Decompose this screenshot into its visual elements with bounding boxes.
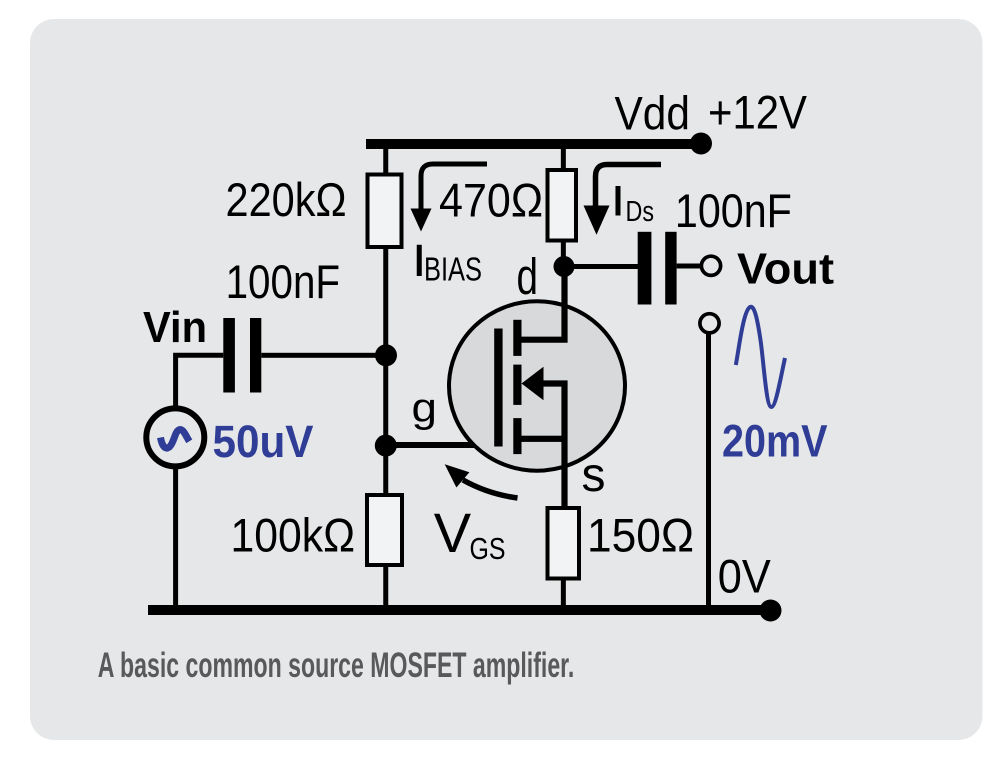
- wire node A to gate node: [383, 355, 388, 446]
- resistor R3 100k body: [367, 495, 402, 565]
- wire gate node to R3: [383, 445, 388, 495]
- svg-text:Vin: Vin: [143, 303, 207, 352]
- arrow IDs: [596, 165, 662, 208]
- svg-text:GS: GS: [470, 531, 506, 566]
- arrow VGS: [463, 480, 518, 498]
- bottom rail: [148, 605, 764, 615]
- capacitor C2 100nF plate 1: [638, 232, 652, 305]
- wire Vin elbow to C1: [176, 355, 224, 409]
- svg-text:100nF: 100nF: [675, 184, 792, 237]
- svg-text:d: d: [517, 248, 539, 305]
- svg-text:I: I: [611, 178, 626, 226]
- Vdd rail terminal dot: [690, 133, 712, 155]
- MOSFET source connection: [541, 384, 565, 510]
- output sine glyph: [736, 307, 785, 407]
- wire rail to R2: [561, 144, 566, 172]
- Vout probe open circle: [700, 314, 719, 333]
- wire Vout probe to bottom rail: [706, 333, 711, 610]
- source V1 sine glyph: [161, 430, 190, 449]
- svg-text:0V: 0V: [718, 550, 772, 603]
- Vout terminal open circle: [701, 256, 720, 275]
- MOSFET drain connection: [522, 267, 565, 340]
- wire drain node to C2: [564, 264, 639, 269]
- wire rail to R1: [383, 144, 388, 175]
- MOSFET gate bar: [494, 329, 502, 447]
- svg-text:s: s: [582, 449, 606, 502]
- wire C1 to node A: [261, 353, 386, 358]
- wire R4 to bottom rail: [561, 577, 566, 610]
- svg-text:100kΩ: 100kΩ: [231, 509, 356, 562]
- MOSFET channel segment middle: [513, 365, 521, 405]
- MOSFET bottom channel link: [522, 436, 565, 442]
- wire R3 to bottom rail: [383, 564, 388, 610]
- svg-text:20mV: 20mV: [722, 415, 828, 466]
- svg-text:150Ω: 150Ω: [587, 509, 694, 562]
- Vdd rail: [366, 139, 696, 149]
- MOSFET body arrow: [522, 367, 544, 400]
- resistor R2 470 body: [548, 170, 577, 241]
- wire C2 to Vout terminal: [677, 264, 702, 269]
- drain node dot: [554, 256, 575, 277]
- wire R2 to drain node: [561, 240, 566, 268]
- MOSFET channel segment top: [513, 320, 521, 356]
- svg-text:Vdd: Vdd: [615, 87, 691, 140]
- svg-text:+12V: +12V: [708, 86, 808, 139]
- svg-text:A basic common source MOSFET a: A basic common source MOSFET amplifier.: [98, 645, 575, 685]
- gate node dot: [375, 435, 397, 457]
- resistor R1 220k body: [368, 175, 402, 248]
- MOSFET Q1 body circle: [449, 301, 625, 470]
- arrow IBIAS: [421, 164, 487, 210]
- resistor R4 150 body: [548, 508, 580, 579]
- svg-text:V: V: [434, 501, 472, 564]
- wire gate node to MOSFET gate: [386, 442, 500, 448]
- MOSFET channel segment bottom: [513, 418, 521, 454]
- svg-text:BIAS: BIAS: [424, 250, 482, 287]
- bottom rail terminal dot: [760, 600, 782, 622]
- capacitor C2 100nF plate 2: [665, 232, 676, 305]
- svg-text:100nF: 100nF: [226, 255, 341, 308]
- wire R1 to node A: [383, 246, 388, 356]
- wire V1 to bottom rail: [173, 466, 178, 611]
- capacitor C1 100nF plate 2: [250, 318, 261, 393]
- svg-text:470Ω: 470Ω: [439, 173, 543, 226]
- svg-text:50uV: 50uV: [213, 416, 314, 467]
- svg-text:220kΩ: 220kΩ: [226, 173, 347, 226]
- capacitor C1 100nF plate 1: [223, 318, 235, 393]
- svg-text:Ds: Ds: [626, 196, 655, 228]
- source V1 circle: [146, 408, 204, 466]
- svg-text:g: g: [412, 385, 438, 431]
- svg-text:Vout: Vout: [737, 245, 834, 294]
- node A dot: [375, 344, 397, 366]
